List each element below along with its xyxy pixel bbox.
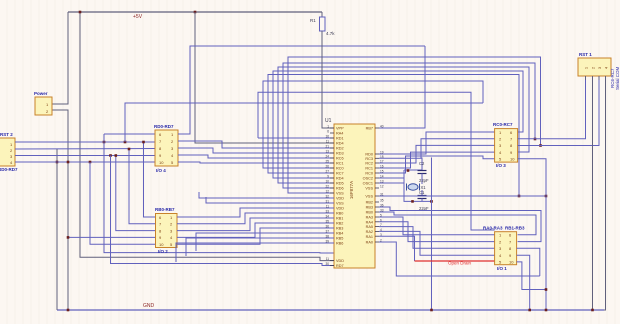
svg-text:22: 22 [325, 185, 329, 189]
wire U1 RA1 to open drain riser [379, 236, 415, 261]
wire U1 RC1 loop to IO3 pin4 [379, 152, 495, 168]
svg-text:VSS: VSS [336, 192, 344, 196]
U1 right pins [375, 127, 379, 129]
svg-text:RD4: RD4 [336, 177, 344, 181]
wire riser bus4 x273 [273, 71, 523, 178]
svg-text:RA4: RA4 [336, 132, 343, 136]
wire IO2 pin1 to U1 [177, 208, 334, 217]
wire +5V drop to Power pin1 [52, 12, 68, 104]
svg-text:Open Drain: Open Drain [448, 261, 472, 266]
svg-text:RC7: RC7 [336, 172, 344, 176]
svg-text:RD1: RD1 [336, 137, 344, 141]
svg-text:RA1: RA1 [366, 235, 373, 239]
wire GND rail [57, 309, 604, 311]
wire RST2 pin2 to IO4 and GND corner [15, 148, 155, 151]
svg-text:RB2: RB2 [336, 222, 343, 226]
wire RST2 pin4 to IO4 [15, 161, 155, 163]
svg-text:VDD: VDD [336, 207, 344, 211]
wire U1 RB3 loop to IO1 pin6 [379, 212, 536, 235]
wire crystal GND drop [431, 158, 433, 311]
svg-text:VSS: VSS [336, 202, 344, 206]
wire U1 RC2 loop to IO3 pin3 [379, 145, 495, 163]
wire GND branch to IO2 pin9 [68, 236, 155, 238]
wire long y103 to RST2 net [125, 103, 483, 142]
svg-text:GND: GND [143, 303, 155, 309]
wire open drain red [415, 260, 495, 262]
wire U1 RB7 to top loop [379, 46, 425, 128]
op-amp U1 16F877A IC body [334, 124, 375, 268]
wire U1 RC3 loop to IO3 pin2 [379, 139, 495, 159]
wire IO4 pin5 jog to U1 [178, 162, 334, 163]
svg-text:16F877A: 16F877A [349, 181, 354, 199]
svg-text:RA4: RA4 [366, 220, 373, 224]
junction GND x529 [528, 309, 531, 312]
wire OSC1 stub [379, 182, 404, 184]
svg-text:U1: U1 [325, 118, 332, 124]
svg-text:Serial COM: Serial COM [615, 66, 620, 90]
svg-text:C1: C1 [419, 190, 425, 195]
svg-text:9: 9 [327, 175, 329, 179]
wire RST1 pin2 to GND [592, 76, 594, 310]
svg-text:+5V: +5V [133, 14, 143, 20]
svg-text:I/O 4: I/O 4 [156, 168, 166, 173]
svg-text:RD5: RD5 [336, 182, 344, 186]
svg-text:RD6: RD6 [336, 187, 344, 191]
svg-text:RC3: RC3 [365, 157, 373, 161]
svg-text:10: 10 [509, 260, 514, 265]
connector IO4 RD0-RD7 [155, 130, 178, 166]
svg-text:RD0-RD7: RD0-RD7 [154, 124, 174, 129]
wire IO3 pin8 to RST1 pin3 [518, 80, 599, 146]
svg-text:RC1: RC1 [365, 167, 373, 171]
svg-text:10: 10 [159, 160, 164, 165]
svg-text:RD4: RD4 [336, 142, 344, 146]
wire branch x90 down to IO2 pin10 [90, 162, 155, 244]
junction x68 pin4 [67, 161, 70, 164]
svg-text:10: 10 [159, 242, 164, 247]
svg-text:Power: Power [34, 91, 48, 96]
junction x546 y196 [545, 195, 548, 198]
wire IO4 pin1 loop up-left [178, 46, 425, 134]
svg-text:RB0: RB0 [336, 212, 343, 216]
svg-text:RD7: RD7 [336, 264, 344, 268]
wire +5V branch x80 [80, 12, 334, 261]
svg-text:RB1: RB1 [336, 217, 343, 221]
svg-text:OSC1: OSC1 [363, 182, 373, 186]
svg-text:11: 11 [326, 257, 330, 261]
svg-text:VDD: VDD [336, 197, 344, 201]
wire riser bus1 bottom to U1 [258, 137, 334, 139]
svg-text:RB5: RB5 [336, 237, 343, 241]
junction crystal bottom right [430, 200, 433, 203]
wire riser bus1 x258 to IO1 top [258, 92, 495, 230]
junction x104 on RST2 pin1 wire [103, 141, 106, 144]
wire RST1 pin1 drop [585, 76, 587, 80]
wire x116 jog to IO2 pin8 [116, 156, 155, 231]
svg-text:RA0-RA3 RB1-RB3: RA0-RA3 RB1-RB3 [483, 226, 525, 231]
crystal X1 [408, 184, 418, 190]
svg-text:VSS: VSS [365, 195, 373, 199]
resistor R1 [321, 12, 323, 17]
svg-text:RB0: RB0 [366, 211, 373, 215]
svg-text:RC0: RC0 [365, 172, 373, 176]
wire IO3 pin10 down to GND [518, 159, 546, 310]
wire U1 RA3 to IO1 pin1 [379, 217, 495, 235]
junction x546 y289 [545, 288, 548, 291]
svg-text:RD2: RD2 [336, 147, 344, 151]
wire crystal top link [404, 169, 422, 171]
wire U1 RB3 feed [196, 233, 334, 251]
wire R1 to U1 VPP [322, 31, 334, 128]
wire riser bus2 x263 over to y103 [263, 81, 483, 168]
svg-text:16: 16 [325, 135, 329, 139]
svg-text:R1: R1 [310, 18, 316, 23]
svg-text:RA2: RA2 [366, 230, 373, 234]
svg-text:RB3: RB3 [366, 206, 373, 210]
svg-text:10: 10 [325, 180, 329, 184]
svg-text:1: 1 [327, 125, 329, 129]
svg-text:12: 12 [380, 185, 384, 189]
wire IO4 pin4 jog to U1 [178, 155, 334, 158]
wire GND riser from Power pin2 [52, 110, 68, 310]
junction GND x546 [545, 309, 548, 312]
svg-text:22pF: 22pF [419, 178, 429, 183]
junction crystal top left [407, 169, 410, 172]
wire IO1 pin9 to GND [517, 255, 530, 310]
svg-text:RA5: RA5 [366, 225, 373, 229]
junction +5V rail x80 [79, 11, 82, 14]
U1 left pins [330, 127, 334, 129]
wire U1 RC0 loop to IO3 pin5 [379, 156, 495, 173]
junction x115 pin3 [109, 154, 112, 157]
junction bus7 IO3 pin8 [539, 144, 542, 147]
wire U1 RA4 to IO1 pin2 [379, 222, 495, 242]
wire IO2 pin4 to U1 [177, 223, 334, 237]
wire U1 RD0 loop to IO3 pin1 [379, 132, 495, 154]
svg-text:24: 24 [325, 155, 329, 159]
wire U1 RB4 feed [186, 238, 334, 256]
svg-text:I/O 1: I/O 1 [497, 266, 507, 271]
wire riser bus3 x268 [268, 75, 519, 197]
wire GND left drop x57 [56, 149, 58, 310]
svg-text:C2: C2 [419, 161, 425, 166]
wire x129 jog to IO2 pin7 [129, 149, 155, 224]
svg-text:11: 11 [326, 140, 330, 144]
wire U1 VSS to GND drop x546 [379, 195, 546, 197]
junction +5V rail x195 [194, 11, 197, 14]
wire IO2 pin3 to U1 [177, 218, 334, 231]
wire RST2 pin1 to IO4 [15, 141, 155, 143]
connector IO2 RB0-RB7 [156, 214, 178, 248]
svg-text:RC6: RC6 [336, 157, 344, 161]
junction GND x592 [591, 309, 594, 312]
junction x57 pin4 [56, 161, 59, 164]
U1 bottom-left pins VDD RD7 [330, 260, 334, 262]
wire IO4 pin2 jog to U1 [178, 141, 334, 148]
svg-text:RB2: RB2 [366, 201, 373, 205]
svg-text:RD3: RD3 [336, 152, 344, 156]
svg-text:RB7: RB7 [366, 127, 373, 131]
svg-text:RB3: RB3 [336, 227, 343, 231]
svg-text:27: 27 [325, 170, 329, 174]
svg-text:35: 35 [380, 199, 384, 203]
wire riser bus6 x283 [283, 63, 535, 188]
capacitor C1 [421, 190, 423, 195]
junction crystal bottom left [411, 200, 414, 203]
svg-text:RD0-RD7: RD0-RD7 [0, 167, 18, 172]
junction bus3 on VSS line [518, 195, 521, 198]
svg-text:10: 10 [510, 157, 515, 162]
wire U1 RB5 feed [176, 243, 334, 262]
svg-text:RC1: RC1 [336, 162, 344, 166]
svg-text:4.7k: 4.7k [326, 31, 335, 36]
svg-text:VSS: VSS [365, 187, 373, 191]
wire IO3 pin7 to RST1 pin1 [518, 80, 586, 139]
svg-text:6: 6 [327, 130, 329, 134]
svg-text:RB4: RB4 [336, 232, 343, 236]
wire jog feed U1 row203 [206, 197, 334, 203]
wire +5V drop x195 to U1 [195, 12, 334, 143]
svg-text:I/O 3: I/O 3 [496, 163, 506, 168]
svg-text:21: 21 [325, 145, 329, 149]
svg-text:RB6: RB6 [336, 242, 343, 246]
wire riser bus5 x278 [278, 67, 529, 183]
wire U1 RA5 to IO1 pin3 [379, 227, 495, 249]
svg-text:VDD: VDD [336, 259, 344, 263]
wire U1 RA2 to IO1 pin4 [379, 231, 495, 255]
wire OSC2 to crystal loop [379, 178, 432, 201]
wire branch x104 down [104, 134, 334, 253]
junction bus6 IO3 pin7 [534, 138, 537, 141]
wire IO2 pin2 to U1 [177, 213, 334, 224]
wire x143 jog to IO2 pin6 [144, 142, 156, 217]
svg-text:VPP: VPP [336, 127, 344, 131]
junction x68 y237 [67, 236, 70, 239]
svg-text:30: 30 [325, 262, 329, 266]
svg-text:26: 26 [325, 165, 329, 169]
connector RST2 [0, 138, 15, 166]
svg-text:13: 13 [325, 150, 329, 154]
svg-text:25: 25 [325, 160, 329, 164]
junction GND x431 [430, 309, 433, 312]
svg-text:RST 1: RST 1 [579, 52, 592, 57]
wire IO4 left pin1 feed [104, 133, 155, 135]
wire RST1 pin3 drop [598, 76, 600, 80]
wire IO1 pin8 down [517, 248, 540, 276]
wire riser bus7 x288 [288, 57, 541, 193]
connector RST1 [578, 58, 611, 76]
wire IO1 pin10 down [517, 262, 546, 290]
svg-text:RA0: RA0 [366, 241, 373, 245]
wire IO4 pin3 jog to U1 [178, 148, 334, 153]
connector Power [35, 97, 52, 115]
svg-text:RC2: RC2 [365, 162, 373, 166]
svg-text:OSC2: OSC2 [363, 177, 373, 181]
wire RST2 pin3 to IO4 [15, 155, 155, 157]
svg-text:RA3: RA3 [366, 216, 373, 220]
wire branch x110 down to U1 RD7 [111, 156, 335, 266]
wire IO2 pin5 to U1 [177, 228, 334, 244]
svg-text:RB0-RB7: RB0-RB7 [155, 207, 175, 212]
wire jog feed U1 row198 [199, 192, 334, 198]
svg-text:RC0-RC7: RC0-RC7 [493, 122, 513, 127]
svg-text:12: 12 [325, 190, 329, 194]
junction x90 pin4 [89, 161, 92, 164]
wire U1 RB2 loop to IO1 pin7 [379, 207, 541, 242]
svg-text:RST 2: RST 2 [0, 132, 13, 137]
wire RST1 pin4 to GND corner [604, 76, 606, 310]
wire U1 RA0 to bottom loop [379, 242, 540, 276]
connector IO1 RA0-RA3 RB1-RB3 [495, 232, 517, 265]
connector IO3 RC0-RC7 [495, 129, 518, 163]
junction GND rail x68 [67, 309, 70, 312]
junction x125 on RST2 pin1 wire [124, 141, 127, 144]
svg-text:I/O 2: I/O 2 [158, 249, 168, 254]
capacitor C2 [421, 158, 423, 171]
svg-text:RC0: RC0 [336, 167, 344, 171]
wire +5V rail [68, 11, 322, 13]
